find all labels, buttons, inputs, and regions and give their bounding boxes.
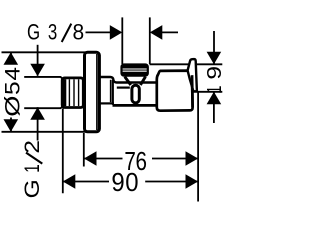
wire: G1/2 pipe top outline (24, 77, 63, 79)
wire: G3/8 ext line right (149, 17, 151, 64)
wire: body bottom edge (113, 104, 158, 107)
knob oval handle (132, 85, 139, 103)
svg-text:2: 2 (20, 140, 44, 154)
label G3/8 slash (62, 24, 72, 42)
cone below nut (125, 77, 131, 85)
wire: G3/8 tail right (161, 31, 178, 33)
arrow: 19 up (207, 92, 222, 105)
cover escutcheon (157, 71, 193, 111)
arrow: G1/2 down (30, 64, 45, 76)
rosette wall plate (85, 52, 100, 132)
wire: 90 ext left (62, 109, 64, 194)
arrow: 76 right (186, 151, 199, 166)
wire: 76 dim line left (84, 158, 123, 160)
arrow: 90 right (186, 174, 199, 189)
svg-text:9: 9 (203, 66, 226, 80)
wire: O54 ext top (2, 51, 87, 53)
wire: 19 dim line top seg (213, 31, 215, 64)
wire: 76 ext left (83, 133, 85, 167)
label 19 (202, 66, 225, 94)
wire: nut stripe 2 (123, 70, 147, 72)
technical drawing: angle valve with dimensions (0, 0, 228, 228)
wire: 19 dim line bottom seg (213, 92, 215, 123)
dimension Ø54 left (2, 52, 87, 132)
wire: O54 dim line bottom seg (10, 118, 12, 132)
wire: 19 ext top (150, 63, 223, 65)
svg-text:G: G (27, 20, 40, 45)
wire: G1/2 pipe bottom outline (24, 106, 63, 108)
arrow: G1/2 up (30, 107, 45, 120)
wire: rosette right inner line (96, 54, 98, 130)
wire: O54 ext bottom (2, 131, 87, 133)
wire: neck top from rosette stepping down to body outlet top (100, 77, 157, 83)
wire: 90 dim line right (145, 181, 198, 183)
wire: bonnet lower edge (117, 86, 130, 88)
wire: O54 dim line top seg (10, 52, 12, 63)
wire: body left edge b (112, 80, 114, 105)
dimension 76 bottom (84, 133, 198, 167)
wire: 76 dim line right (152, 158, 198, 160)
label 76 (124, 147, 147, 176)
cover lip (188, 59, 197, 91)
arrow: G3/8 left (110, 25, 123, 40)
label G1/2 slash (26, 153, 42, 164)
wire: G1/2 dim line bottom seg (37, 107, 39, 140)
arrow: G3/8 right (150, 25, 163, 40)
wire: G1/2 dim line top seg (37, 45, 39, 76)
dimension 90 bottom (63, 92, 198, 202)
arrow: O54 up (4, 52, 19, 65)
wire: thread block left edge inner (63, 79, 66, 106)
wire: 76 90 ext right (197, 92, 199, 202)
arrow: 76 left (84, 151, 97, 166)
wire: thread line 3 (78, 79, 80, 106)
arrow: 90 left (63, 174, 76, 189)
thread block (62, 78, 83, 108)
arrow: O54 down (4, 119, 19, 132)
svg-text:8: 8 (72, 20, 84, 45)
wire: thread line 2 (73, 79, 75, 106)
wire: 90 dim line left (63, 181, 109, 183)
svg-text:0: 0 (125, 168, 138, 197)
wire: cover right edge over lip (191, 75, 194, 107)
svg-text:9: 9 (111, 168, 124, 197)
wire: neck bottom from rosette to body (100, 102, 114, 104)
dimension 19 right (150, 31, 223, 123)
label O54 (0, 67, 25, 117)
svg-text:3: 3 (48, 20, 57, 45)
wire: nut stripe 1 (123, 68, 147, 70)
wire: G3/8 ext line left (121, 17, 123, 64)
svg-text:1: 1 (19, 164, 43, 173)
wire: thread line 1 (68, 79, 70, 106)
dimension G3/8 top (86, 17, 179, 64)
label G1/2 (19, 140, 43, 198)
label 90 (111, 168, 138, 197)
wire: G3/8 leader left (86, 31, 112, 33)
svg-text:5: 5 (0, 81, 24, 95)
nut: top G3/8 connector (121, 64, 148, 76)
dimension G1/2 lower left (37, 45, 39, 141)
wire: 19 ext bottom (194, 91, 223, 93)
svg-text:4: 4 (0, 67, 24, 81)
arrow: 19 down (207, 52, 222, 65)
label G3/8 (27, 20, 84, 45)
svg-text:Ø: Ø (1, 96, 25, 117)
wire: body left edge a (110, 80, 112, 102)
svg-text:1: 1 (202, 86, 225, 94)
svg-text:G: G (20, 179, 44, 198)
